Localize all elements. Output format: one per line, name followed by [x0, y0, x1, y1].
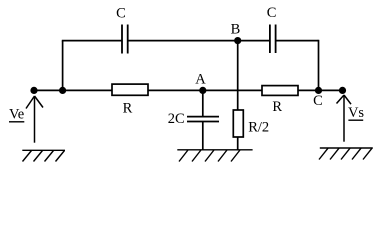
ground (center, shared by 2C and R/2) — [177, 150, 252, 162]
wire: middle rail (R left to R right through node A) — [148, 89, 262, 91]
wire: node A down to capacitor 2C — [202, 90, 204, 116]
wire: R/2 bottom to ground — [237, 137, 239, 150]
wire: top rail to capacitor C left plate — [62, 40, 122, 42]
resistor R/2 body — [233, 110, 243, 137]
svg-text:Ve: Ve — [9, 107, 24, 123]
wire: input rail left segment (input node to R left) — [34, 89, 112, 91]
svg-text:R: R — [123, 101, 133, 117]
wire: 2C bottom to ground — [202, 122, 204, 150]
node: output dot — [339, 87, 346, 94]
svg-text:2C: 2C — [168, 111, 185, 127]
wire: top rail from right capacitor to right corner — [276, 40, 319, 42]
node B junction dot — [234, 37, 241, 44]
node A junction dot — [199, 87, 206, 94]
svg-text:Vs: Vs — [348, 105, 364, 121]
svg-text:C: C — [116, 6, 126, 22]
node: input junction dot — [30, 87, 37, 94]
node: riser junction dot — [59, 87, 66, 94]
svg-text:C: C — [267, 5, 277, 21]
wire: riser from top rail down to node C — [318, 40, 320, 91]
wire: top rail between capacitors through node B — [128, 40, 269, 42]
svg-text:A: A — [195, 72, 206, 88]
capacitor C (left) plates — [122, 25, 128, 54]
ground (left, under Ve source) — [22, 150, 65, 161]
source arrow Ve (ground to input node) — [26, 96, 43, 143]
ground (right, under Vs) — [319, 148, 373, 160]
svg-text:R/2: R/2 — [248, 120, 269, 136]
resistor R (left) body — [112, 84, 148, 95]
wire: riser from input junction up to top rail — [62, 41, 64, 91]
svg-text:C: C — [313, 93, 323, 109]
node C junction dot — [315, 87, 322, 94]
svg-text:B: B — [231, 22, 241, 38]
source arrow Vs (ground to output node) — [337, 95, 352, 142]
capacitor C (right) plates — [270, 25, 276, 54]
resistor R (right) body — [262, 86, 298, 96]
wire: output rail (R right to output node) — [298, 89, 343, 91]
wire: node B down through crossing to R/2 — [237, 41, 239, 110]
capacitor 2C plates — [187, 117, 219, 122]
svg-text:R: R — [272, 99, 282, 115]
